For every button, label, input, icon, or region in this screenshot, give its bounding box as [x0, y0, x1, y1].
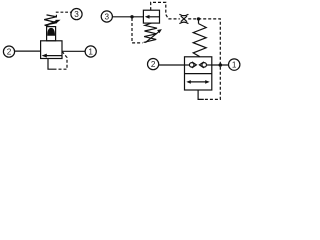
svg-text:3: 3 [74, 10, 79, 19]
svg-text:2: 2 [151, 60, 156, 69]
svg-text:1: 1 [232, 61, 237, 70]
svg-text:1: 1 [88, 47, 93, 56]
svg-text:3: 3 [105, 12, 110, 21]
svg-text:2: 2 [7, 48, 12, 57]
